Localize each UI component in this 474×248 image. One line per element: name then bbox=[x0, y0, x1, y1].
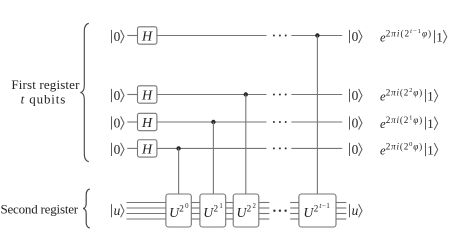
label: First register / t qubits bbox=[11, 77, 80, 107]
ket |0> input, qubit 1 bbox=[112, 29, 125, 44]
svg-text:H: H bbox=[141, 89, 153, 104]
svg-text:u: u bbox=[114, 203, 121, 218]
svg-text:H: H bbox=[141, 30, 153, 45]
cdots: omitted wire, qubit 3 bbox=[273, 121, 287, 123]
svg-text:1: 1 bbox=[427, 117, 433, 131]
svg-text:0: 0 bbox=[114, 88, 121, 103]
svg-text:2: 2 bbox=[247, 204, 252, 214]
ket |0> output, qubit 3 bbox=[350, 115, 363, 130]
svg-text:2: 2 bbox=[314, 204, 319, 214]
wire bundle segment 2 (4 parallel wires), second register bbox=[191, 203, 200, 220]
svg-text:1: 1 bbox=[427, 89, 433, 103]
brace: first register (t qubits) bbox=[80, 23, 88, 161]
svg-text:0: 0 bbox=[114, 142, 121, 157]
wire: qubit 2, stub |0> to H gate bbox=[127, 94, 137, 96]
ket |0> input, qubit 2 bbox=[112, 88, 125, 103]
svg-text:t−1: t−1 bbox=[319, 202, 330, 210]
svg-text:0: 0 bbox=[352, 142, 359, 157]
ket |0> input, qubit 3 bbox=[112, 115, 125, 130]
cdots: omitted U gates, second register bbox=[273, 210, 287, 212]
control dot, qubit 3 bbox=[211, 120, 215, 124]
svg-text:H: H bbox=[141, 116, 153, 131]
formula e^(2 pi i 2^1 phi)|1>, qubit 3 output state bbox=[380, 115, 438, 131]
svg-text:0: 0 bbox=[185, 203, 189, 210]
wire: qubit 1, stub |0> to H gate bbox=[127, 35, 137, 37]
gate U^2^1 (controlled-U), second register bbox=[200, 194, 226, 227]
wire: qubit 2, H gate to cdots bbox=[157, 94, 267, 96]
svg-text:2: 2 bbox=[253, 203, 257, 210]
svg-text:U: U bbox=[303, 205, 314, 220]
wire: qubit 1, H gate to cdots bbox=[157, 35, 267, 37]
svg-text:0: 0 bbox=[114, 29, 121, 44]
svg-text:1: 1 bbox=[219, 203, 222, 210]
wire: control line qubit 2 down to U gate bbox=[245, 95, 247, 195]
ket |u> output, second register bbox=[350, 203, 363, 218]
gate H, qubit 1 bbox=[138, 27, 157, 45]
ket |u> input, second register bbox=[112, 203, 125, 218]
svg-text:0: 0 bbox=[114, 115, 121, 130]
gate H, qubit 4 bbox=[138, 140, 157, 158]
wire: qubit 2, cdots to output bbox=[291, 94, 342, 96]
gate H, qubit 2 bbox=[138, 86, 157, 104]
wire: qubit 4, H gate to cdots bbox=[157, 147, 267, 149]
wire: qubit 4, cdots to output bbox=[291, 147, 342, 149]
wire: control line qubit 3 down to U gate bbox=[212, 122, 214, 194]
svg-text:H: H bbox=[141, 142, 153, 157]
wire: qubit 3, H gate to cdots bbox=[157, 121, 267, 123]
gate U^2^2 (controlled-U), second register bbox=[233, 194, 259, 227]
svg-text:2: 2 bbox=[213, 204, 218, 214]
svg-text:t qubits: t qubits bbox=[21, 92, 66, 107]
formula e^(2 pi i 2^2 phi)|1>, qubit 2 output state bbox=[380, 87, 438, 103]
wire bundle segment 1 (4 parallel wires), second register bbox=[127, 203, 166, 220]
gate U^2^(t-1) (controlled-U), second register bbox=[299, 194, 336, 227]
ket |0> output, qubit 2 bbox=[350, 88, 363, 103]
cdots: omitted wire, qubit 2 bbox=[273, 94, 287, 96]
formula e^(2 pi i 2^(t-1) phi)|1>, qubit 1 output state bbox=[380, 28, 447, 44]
control dot, qubit 1 bbox=[315, 33, 319, 37]
svg-text:Second register: Second register bbox=[0, 202, 78, 217]
formula e^(2 pi i 2^0 phi)|1>, qubit 4 output state bbox=[380, 141, 438, 157]
wire: control line qubit 1 down to U gate bbox=[316, 36, 318, 195]
wire: control line qubit 4 down to U gate bbox=[178, 148, 180, 194]
cdots: omitted wire, qubit 1 bbox=[273, 35, 287, 37]
control dot, qubit 2 bbox=[244, 92, 248, 96]
svg-text:First register: First register bbox=[11, 77, 80, 92]
svg-text:2: 2 bbox=[179, 204, 184, 214]
svg-text:1: 1 bbox=[427, 143, 433, 157]
gate U^2^0 (controlled-U), second register bbox=[166, 194, 191, 227]
wire bundle segment 4 (4 parallel wires), second register bbox=[259, 203, 270, 220]
wire bundle segment 3 (4 parallel wires), second register bbox=[226, 203, 234, 220]
wire: qubit 4, stub |0> to H gate bbox=[127, 147, 137, 149]
ket |0> output, qubit 1 bbox=[350, 29, 363, 44]
wire: qubit 3, stub |0> to H gate bbox=[127, 121, 137, 123]
cdots: omitted wire, qubit 4 bbox=[273, 147, 287, 149]
wire bundle segment 5 (4 parallel wires), second register bbox=[290, 203, 299, 220]
ket |0> input, qubit 4 bbox=[112, 142, 125, 157]
control dot, qubit 4 bbox=[176, 146, 180, 150]
brace: second register bbox=[83, 189, 90, 228]
wire bundle segment 6 (4 parallel wires), second register bbox=[336, 203, 346, 220]
svg-text:0: 0 bbox=[352, 88, 359, 103]
svg-text:1: 1 bbox=[436, 30, 442, 44]
svg-text:0: 0 bbox=[352, 115, 359, 130]
ket |0> output, qubit 4 bbox=[350, 142, 363, 157]
gate H, qubit 3 bbox=[138, 113, 157, 131]
svg-text:u: u bbox=[352, 203, 359, 218]
wire: qubit 1, cdots to output bbox=[291, 35, 342, 37]
wire: qubit 3, cdots to output bbox=[291, 121, 342, 123]
label: Second register bbox=[0, 202, 78, 217]
svg-text:0: 0 bbox=[352, 29, 359, 44]
